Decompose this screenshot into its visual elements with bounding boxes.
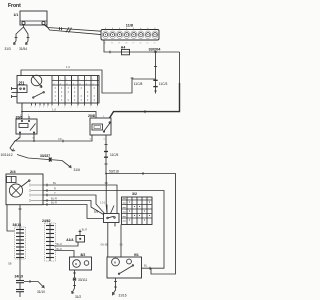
svg-text:BL-R: BL-R xyxy=(51,197,57,201)
svg-text:3: 3 xyxy=(90,139,92,141)
svg-text:27: 27 xyxy=(132,43,134,45)
svg-text:A4: A4 xyxy=(121,46,126,50)
svg-text:SB: SB xyxy=(8,261,12,265)
svg-text:BL-R: BL-R xyxy=(51,201,57,205)
svg-text:BL-R: BL-R xyxy=(57,244,63,246)
svg-text:24/19: 24/19 xyxy=(15,275,24,279)
svg-text:6: 6 xyxy=(47,107,48,109)
svg-text:31/10: 31/10 xyxy=(37,290,45,294)
svg-text:5: 5 xyxy=(64,107,65,109)
svg-text:2/4: 2/4 xyxy=(10,169,16,174)
svg-text:BL: BL xyxy=(144,264,148,268)
svg-text:M: M xyxy=(114,260,117,264)
svg-text:R: R xyxy=(54,187,56,191)
svg-text:10/114:2: 10/114:2 xyxy=(1,153,13,157)
svg-text:9/1: 9/1 xyxy=(134,253,139,257)
svg-text:Front: Front xyxy=(8,3,21,9)
svg-text:11C/5: 11C/5 xyxy=(110,153,118,157)
svg-text:M: M xyxy=(75,262,78,266)
svg-text:28: 28 xyxy=(125,43,127,45)
svg-text:9: 9 xyxy=(58,107,59,109)
svg-text:2: 2 xyxy=(97,107,98,109)
svg-text:30: 30 xyxy=(111,43,113,45)
svg-text:1.0: 1.0 xyxy=(52,107,56,111)
svg-text:1 0 1: 1 0 1 xyxy=(100,202,106,205)
svg-text:29: 29 xyxy=(118,43,120,45)
svg-text:11/8: 11/8 xyxy=(126,24,133,28)
svg-text:33/227: 33/227 xyxy=(40,154,50,158)
svg-text:1: 1 xyxy=(28,115,30,117)
svg-text:8: 8 xyxy=(43,107,44,109)
svg-text:53/218: 53/218 xyxy=(109,169,119,173)
svg-text:1.0: 1.0 xyxy=(66,65,70,69)
svg-text:GN-SB: GN-SB xyxy=(101,244,109,246)
svg-text:33/204: 33/204 xyxy=(149,46,162,51)
svg-text:31/3: 31/3 xyxy=(5,47,11,51)
svg-text:24/62: 24/62 xyxy=(42,219,51,223)
svg-text:26: 26 xyxy=(139,43,141,45)
svg-text:BL-R: BL-R xyxy=(82,230,88,232)
svg-text:31/16: 31/16 xyxy=(119,293,127,297)
svg-text:0.8: 0.8 xyxy=(58,137,62,141)
svg-text:1/3: 1/3 xyxy=(94,210,99,214)
svg-text:7: 7 xyxy=(90,107,91,109)
svg-text:34/18: 34/18 xyxy=(13,223,22,227)
svg-text:1/1: 1/1 xyxy=(14,13,19,17)
svg-text:Y: Y xyxy=(54,191,56,195)
svg-text:8: 8 xyxy=(35,107,36,109)
svg-text:BL-R: BL-R xyxy=(57,249,63,251)
svg-text:5: 5 xyxy=(104,139,106,141)
svg-text:31/6: 31/6 xyxy=(74,168,81,172)
svg-text:11C/3: 11C/3 xyxy=(159,82,168,86)
svg-text:A1/A: A1/A xyxy=(66,238,74,242)
svg-text:24: 24 xyxy=(153,43,155,45)
svg-text:11C/8: 11C/8 xyxy=(134,82,143,86)
svg-text:31/54: 31/54 xyxy=(19,47,27,51)
svg-text:31/2: 31/2 xyxy=(75,295,81,299)
svg-text:0: 0 xyxy=(39,107,40,109)
svg-text:SB: SB xyxy=(120,244,124,246)
svg-text:33/111: 33/111 xyxy=(78,278,88,282)
svg-text:2/1: 2/1 xyxy=(19,80,26,85)
svg-text:3/2: 3/2 xyxy=(132,192,137,196)
svg-text:BL: BL xyxy=(53,181,57,185)
svg-text:0: 0 xyxy=(71,107,72,109)
svg-text:0: 0 xyxy=(31,107,32,109)
svg-text:6: 6 xyxy=(77,107,78,109)
svg-text:1: 1 xyxy=(84,107,85,109)
svg-text:25: 25 xyxy=(146,43,148,45)
